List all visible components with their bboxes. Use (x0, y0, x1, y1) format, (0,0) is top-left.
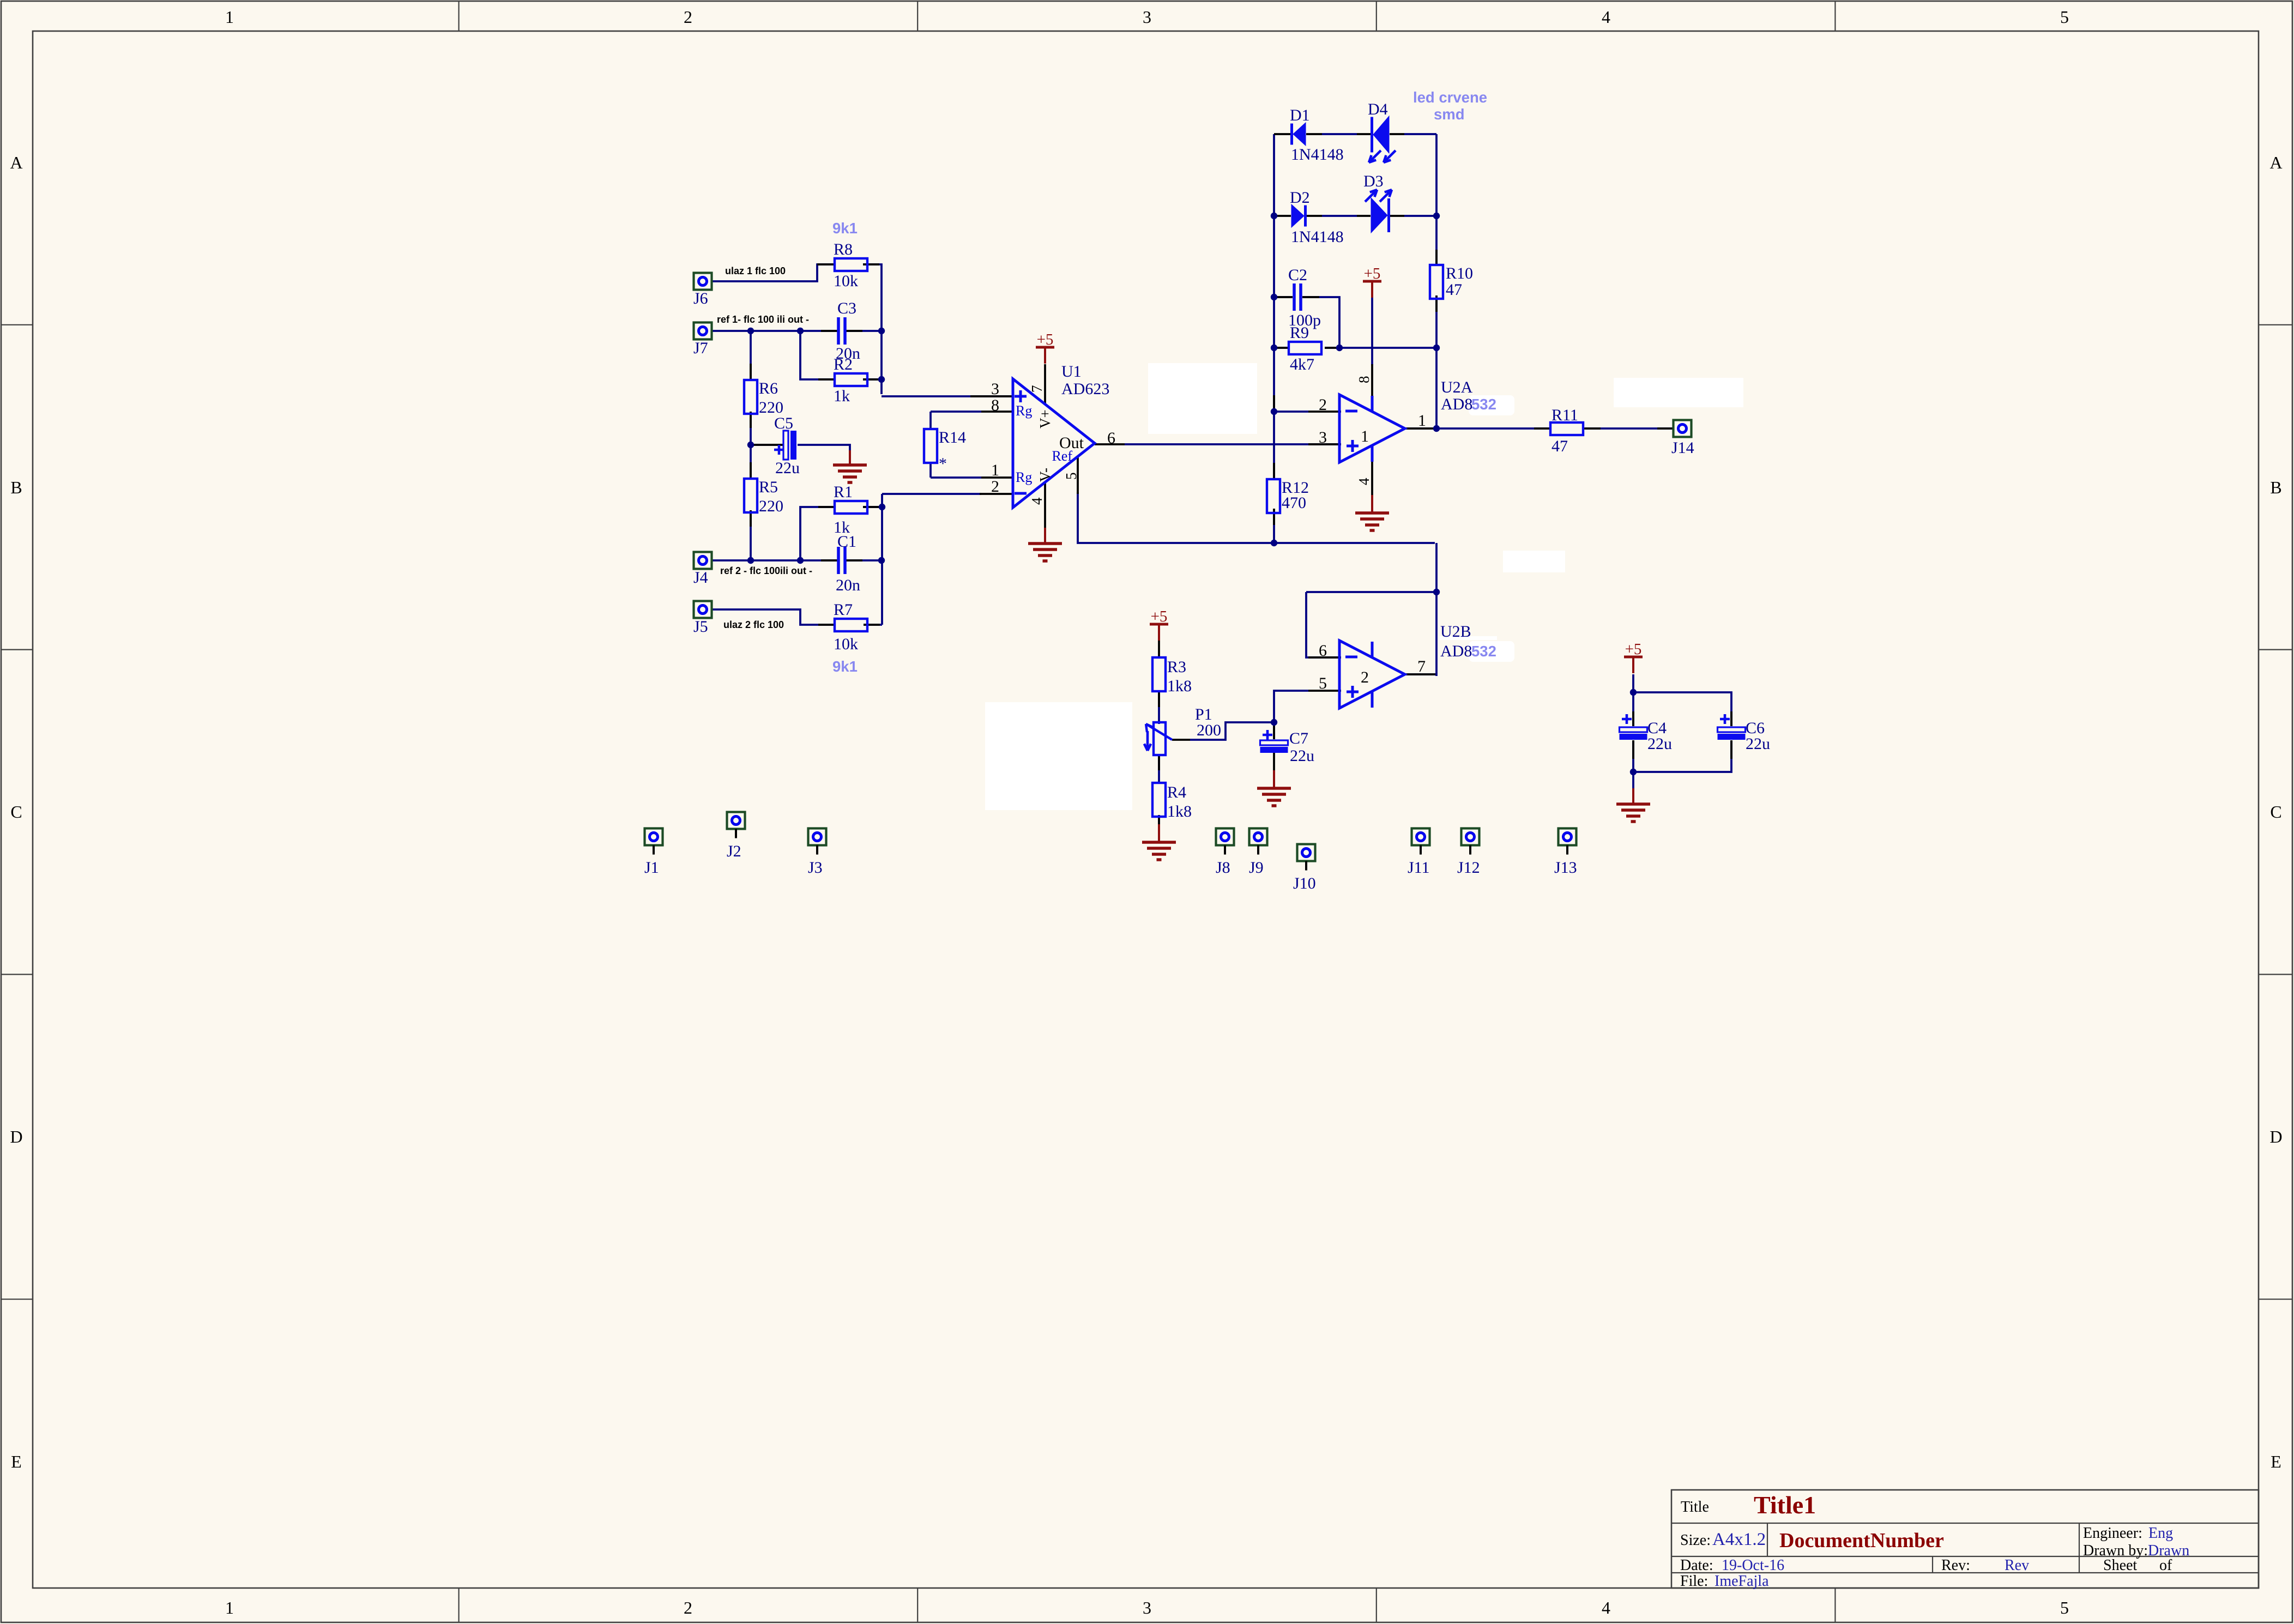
svg-text:22u: 22u (1746, 735, 1770, 753)
svg-text:D4: D4 (1368, 100, 1388, 118)
connector J12 (1457, 829, 1480, 877)
component pin leads (817, 263, 835, 265)
svg-text:8: 8 (991, 396, 999, 414)
junction C4 gnd rail (1630, 769, 1637, 775)
svg-text:AD8: AD8 (1441, 395, 1472, 413)
svg-text:D: D (10, 1127, 22, 1146)
svg-text:R4: R4 (1167, 783, 1186, 801)
wire U2A out to R11 (1406, 427, 1549, 430)
svg-text:File:: File: (1680, 1573, 1708, 1590)
svg-text:R10: R10 (1446, 264, 1473, 282)
svg-text:7: 7 (1029, 385, 1045, 393)
svg-text:J11: J11 (1408, 859, 1430, 877)
svg-text:C5: C5 (774, 414, 793, 432)
wire to U2A out (1435, 348, 1438, 428)
svg-text:10k: 10k (834, 635, 858, 653)
svg-text:J13: J13 (1554, 859, 1577, 877)
svg-text:U1: U1 (1061, 363, 1082, 381)
ground at C7 (1257, 770, 1291, 806)
wire R4 to ground (1158, 815, 1160, 825)
svg-text:5: 5 (1319, 674, 1327, 692)
wire to C5 (751, 444, 783, 446)
svg-text:9k1: 9k1 (832, 220, 858, 237)
+5 power at U2A/C2 (1363, 265, 1381, 298)
ground at U1 pin4 (1028, 528, 1062, 561)
svg-text:Rg: Rg (1016, 403, 1032, 419)
wire J4 net (711, 559, 837, 562)
svg-text:10k: 10k (834, 272, 858, 290)
wire R10 bottom (1435, 295, 1438, 348)
svg-text:2: 2 (684, 7, 692, 27)
svg-text:1: 1 (991, 461, 999, 479)
ground at C4/C6 (1616, 788, 1650, 822)
junction feedback (1433, 589, 1440, 595)
capacitor C1 20n (836, 533, 860, 594)
svg-text:ref 2 - flc 100ili out -: ref 2 - flc 100ili out - (720, 565, 812, 576)
white patch behind 532 of U2A (1469, 395, 1514, 415)
svg-text:+5: +5 (1151, 608, 1168, 625)
svg-text:C: C (10, 802, 22, 822)
wire R11 to J14 (1585, 427, 1673, 430)
svg-text:6: 6 (1107, 429, 1115, 447)
svg-text:AD8: AD8 (1440, 642, 1472, 660)
wire J6 to R8 (711, 264, 835, 281)
svg-text:U2A: U2A (1441, 378, 1473, 396)
svg-text:7: 7 (1417, 657, 1426, 675)
svg-text:532: 532 (1471, 396, 1496, 413)
capacitor C3 20n (836, 299, 860, 363)
svg-text:4: 4 (1602, 7, 1610, 27)
svg-text:3: 3 (1143, 7, 1151, 27)
svg-text:J7: J7 (693, 339, 708, 357)
svg-text:C3: C3 (837, 299, 856, 317)
resistor R14 (924, 428, 966, 473)
U1 pin numbers (991, 380, 1115, 505)
svg-text:9k1: 9k1 (832, 658, 858, 675)
svg-text:1: 1 (225, 1598, 234, 1617)
wire +5 to U2A pin8 (1371, 298, 1373, 365)
wire R12 bottom (1273, 509, 1275, 543)
junction R9 left (1271, 345, 1277, 351)
svg-text:1: 1 (1418, 412, 1426, 430)
svg-text:Ref: Ref (1052, 448, 1072, 464)
capacitor C5 22u polarized (774, 414, 800, 477)
resistor R12 470 (1267, 479, 1309, 513)
junction R9/R10 (1433, 345, 1440, 351)
connector J8 (1216, 829, 1234, 877)
svg-text:+5: +5 (1625, 641, 1642, 658)
svg-text:22u: 22u (1290, 747, 1314, 765)
svg-text:3: 3 (1319, 428, 1327, 446)
wire C1 right (846, 559, 882, 562)
svg-text:R7: R7 (834, 601, 853, 619)
connector J5 (693, 601, 712, 636)
junction R12/ref (1271, 540, 1277, 546)
capacitor C4 22u polarized (1620, 714, 1673, 753)
wire branch to R2 (800, 331, 835, 379)
wire D3 right (1404, 215, 1436, 217)
op-amp U1 AD623 (1013, 363, 1109, 508)
svg-text:1k8: 1k8 (1167, 802, 1192, 820)
wire right diode vertical (1435, 134, 1438, 266)
connector J6 (693, 273, 712, 308)
svg-text:3: 3 (991, 380, 999, 398)
connector J7 (693, 323, 712, 358)
U2A pin numbers (1319, 376, 1426, 486)
svg-text:1k: 1k (834, 387, 850, 405)
svg-text:R3: R3 (1167, 658, 1186, 676)
wire D4 right (1404, 133, 1436, 135)
svg-text:J5: J5 (693, 618, 708, 636)
wire P1 to R4 (1158, 754, 1160, 784)
svg-text:Title: Title (1681, 1499, 1709, 1516)
wire R5 to J4 net (750, 510, 752, 560)
wire C4 bottom lead (1632, 740, 1634, 772)
wire to ground (1632, 772, 1634, 789)
resistor R6 220 (744, 379, 783, 416)
junction C2 left (1271, 294, 1277, 300)
svg-text:5: 5 (1063, 473, 1079, 480)
wire ref vertical to U2B (1435, 543, 1438, 676)
svg-text:R1: R1 (834, 483, 853, 501)
+5 power at R3 (1150, 608, 1168, 641)
wire to U1 pin8 (931, 410, 981, 413)
capacitor C2 100p (1288, 266, 1321, 329)
svg-text:22u: 22u (775, 459, 800, 477)
junction J7/R2 (797, 328, 804, 334)
wire feedback to U2B pin6 (1306, 592, 1341, 657)
svg-text:8: 8 (1356, 376, 1372, 384)
junction R5/J4 (747, 557, 754, 564)
junction C1 right (878, 557, 885, 564)
svg-text:200: 200 (1197, 721, 1221, 739)
svg-text:1N4148: 1N4148 (1291, 228, 1344, 246)
wire branch to R1 (800, 507, 835, 560)
wire to U2B pin5 (1274, 691, 1308, 722)
svg-text:532: 532 (1471, 643, 1496, 660)
svg-text:J12: J12 (1457, 859, 1480, 877)
wire U1 out to U2A pin3 (1125, 443, 1341, 445)
svg-text:ulaz 1 flc 100: ulaz 1 flc 100 (725, 265, 786, 276)
junction J4/R1 (797, 557, 804, 564)
svg-text:B: B (10, 478, 22, 497)
connector J13 (1554, 829, 1577, 877)
wire R7 right (864, 624, 882, 626)
junction C3/R8 (878, 328, 885, 334)
ground at U2A pin4 (1355, 495, 1389, 530)
junction R2/R8 (878, 376, 885, 383)
svg-text:6: 6 (1319, 642, 1327, 660)
svg-text:J6: J6 (693, 289, 708, 307)
wire R2 right (863, 378, 882, 381)
svg-text:22u: 22u (1647, 735, 1672, 753)
wire R14 bottom lead (929, 463, 932, 478)
svg-text:1N4148: 1N4148 (1291, 146, 1344, 164)
svg-text:R14: R14 (939, 428, 966, 446)
wire D1 D4 link (1322, 133, 1357, 135)
diode D1 1N4148 (1290, 106, 1344, 164)
wire C4 top lead (1632, 692, 1634, 726)
ground at R4 (1142, 824, 1176, 860)
diode D2 1N4148 (1290, 189, 1344, 246)
svg-text:A4x1.2: A4x1.2 (1712, 1530, 1766, 1549)
LED D4 (1368, 100, 1396, 162)
wire R9 left lead (1274, 347, 1289, 349)
resistor R9 4k7 (1289, 324, 1321, 373)
resistor R10 47 (1430, 264, 1473, 299)
svg-text:Engineer:: Engineer: (2083, 1525, 2142, 1542)
wire left diode vertical (1273, 134, 1275, 479)
ground at C5 (833, 450, 867, 482)
svg-text:E: E (2271, 1452, 2281, 1471)
svg-text:J3: J3 (808, 859, 823, 877)
connector J3 (808, 829, 826, 877)
svg-text:D1: D1 (1290, 106, 1310, 124)
svg-text:Rev:: Rev: (1941, 1557, 1970, 1574)
white patch right of R11 (1614, 378, 1743, 407)
svg-text:19-Oct-16: 19-Oct-16 (1722, 1557, 1784, 1574)
wire to U2A pin2 (1274, 410, 1308, 413)
wire to C7 (1273, 722, 1275, 739)
svg-text:D: D (2269, 1127, 2282, 1146)
svg-text:U2B: U2B (1440, 623, 1471, 641)
svg-text:DocumentNumber: DocumentNumber (1779, 1529, 1944, 1552)
resistor R1 1k (834, 483, 867, 536)
connector J9 (1249, 829, 1267, 877)
resistor R7 10k (834, 601, 867, 653)
wire C2 right to R9 net (1302, 297, 1339, 348)
svg-text:1: 1 (225, 7, 234, 27)
connector J14 (1671, 420, 1694, 457)
svg-text:C1: C1 (837, 533, 856, 551)
junction D3 right (1433, 213, 1440, 219)
svg-text:5: 5 (2060, 7, 2069, 27)
wire D2 D3 link (1322, 215, 1357, 217)
svg-text:47: 47 (1446, 281, 1462, 299)
svg-text:of: of (2159, 1557, 2172, 1574)
svg-text:D3: D3 (1363, 172, 1384, 190)
connector J2 (727, 812, 745, 861)
wire C4 C6 bottom rail (1633, 740, 1731, 772)
svg-text:3: 3 (1143, 1598, 1151, 1617)
svg-text:Eng: Eng (2148, 1525, 2173, 1542)
svg-text:20n: 20n (836, 345, 860, 363)
svg-text:47: 47 (1552, 437, 1568, 455)
svg-text:5: 5 (2060, 1598, 2069, 1617)
junction wiper/C7 (1271, 719, 1277, 726)
svg-text:J2: J2 (727, 842, 741, 860)
wire inverting vertical (881, 494, 883, 625)
svg-text:J10: J10 (1293, 874, 1316, 892)
resistor R11 47 (1550, 406, 1583, 455)
svg-text:2: 2 (684, 1598, 692, 1617)
svg-text:ImeFajla: ImeFajla (1715, 1573, 1769, 1590)
svg-text:Rg: Rg (1016, 469, 1032, 485)
junction R6/C5 (747, 442, 754, 448)
white patch over old text right of U1 (1148, 363, 1257, 434)
wire C3 right (846, 330, 882, 332)
svg-text:A: A (10, 153, 22, 172)
svg-text:4: 4 (1602, 1598, 1610, 1617)
svg-text:smd: smd (1434, 106, 1465, 123)
wire R3 to P1 (1158, 691, 1160, 724)
svg-text:A: A (2269, 153, 2282, 172)
svg-text:R5: R5 (759, 478, 778, 496)
svg-text:+5: +5 (1037, 331, 1054, 348)
resistor R4 1k8 (1152, 783, 1192, 820)
svg-text:V-: V- (1037, 468, 1053, 482)
resistor R8 10k (834, 240, 867, 290)
svg-text:*: * (939, 455, 947, 473)
wire C2 left lead (1274, 296, 1293, 298)
svg-text:C7: C7 (1289, 729, 1308, 747)
svg-text:Sheet: Sheet (2103, 1557, 2137, 1574)
svg-text:J14: J14 (1671, 439, 1694, 457)
wire J7 to R6 (750, 331, 752, 380)
svg-text:Title1: Title1 (1754, 1491, 1816, 1519)
svg-text:1k8: 1k8 (1167, 677, 1192, 695)
wire P1 wiper net (1190, 722, 1274, 740)
U2B pin numbers (1319, 642, 1426, 692)
svg-text:J1: J1 (644, 859, 659, 877)
svg-text:2: 2 (991, 478, 999, 496)
svg-text:R8: R8 (834, 240, 853, 258)
svg-text:100p: 100p (1288, 311, 1321, 329)
svg-text:4k7: 4k7 (1290, 355, 1314, 373)
LED D3 (1363, 172, 1392, 233)
svg-text:220: 220 (759, 497, 783, 515)
wire to U1 pin1 (931, 476, 981, 479)
junction J7/R6 (747, 328, 754, 334)
svg-text:led crvene: led crvene (1413, 89, 1487, 106)
svg-text:C: C (2270, 802, 2281, 822)
+5 power at U1 pin7 (1036, 331, 1054, 364)
junction C2/R9 right (1336, 345, 1343, 351)
junction pin2 branch (1271, 408, 1277, 415)
wire J5 to R7 (711, 609, 835, 625)
wire R14 top lead (929, 412, 932, 430)
wire U2B out (1406, 673, 1436, 675)
wire R1 right (863, 506, 882, 508)
wire to U1 pin3 (882, 395, 1013, 397)
svg-text:470: 470 (1282, 494, 1306, 512)
svg-text:Date:: Date: (1680, 1557, 1713, 1574)
junction R1 right (879, 504, 885, 510)
svg-text:Size:: Size: (1680, 1532, 1711, 1549)
svg-text:4: 4 (1356, 478, 1372, 485)
svg-text:2: 2 (1361, 668, 1369, 686)
wire feedback horizontal (1306, 591, 1436, 593)
white patch behind 532 of U2B (1469, 641, 1514, 662)
svg-text:J9: J9 (1249, 859, 1264, 877)
wire to U1 pin2 (882, 493, 981, 495)
connector J10 (1293, 844, 1316, 893)
connector J11 (1408, 829, 1430, 877)
junction C4 rail (1630, 689, 1637, 696)
wire +5 to C4 rail (1632, 674, 1634, 692)
title block (1671, 1490, 2259, 1590)
wire C5 to ground (798, 445, 850, 450)
svg-text:ref 1- flc 100 ili out -: ref 1- flc 100 ili out - (717, 314, 809, 325)
svg-text:+5: +5 (1364, 265, 1381, 282)
resistor R3 1k8 (1152, 657, 1192, 695)
wire R9 to R10 net (1325, 347, 1436, 349)
svg-text:20n: 20n (836, 576, 860, 594)
wire R8 to pin3 vertical (863, 264, 882, 394)
svg-text:2: 2 (1319, 396, 1327, 414)
connector J1 (644, 829, 663, 877)
connector J4 (693, 552, 712, 587)
svg-text:V+: V+ (1037, 409, 1053, 428)
svg-text:C2: C2 (1288, 266, 1307, 284)
svg-text:1: 1 (1361, 427, 1369, 445)
capacitor C6 22u polarized (1718, 714, 1771, 753)
wire J7 net (711, 330, 837, 332)
resistor R5 220 (744, 478, 783, 515)
capacitor C7 22u polarized (1260, 729, 1315, 765)
resistor R2 1k (834, 355, 867, 405)
svg-text:R11: R11 (1552, 406, 1578, 424)
svg-text:B: B (2270, 478, 2281, 497)
wire R6 to R5 (750, 412, 752, 479)
svg-text:Rev: Rev (2005, 1557, 2029, 1574)
svg-text:J8: J8 (1216, 859, 1230, 877)
op-amp U2B AD8532 (1339, 623, 1496, 708)
potentiometer P1 200 (1144, 705, 1221, 755)
svg-text:ulaz 2 flc 100: ulaz 2 flc 100 (723, 619, 784, 630)
op-amp U2A AD8532 (1339, 378, 1496, 462)
svg-text:R6: R6 (759, 379, 778, 397)
wire C4 C6 top rail (1633, 692, 1731, 726)
junction D2 left (1271, 213, 1277, 219)
svg-text:AD623: AD623 (1061, 380, 1109, 398)
svg-text:D2: D2 (1290, 189, 1310, 207)
svg-text:4: 4 (1029, 497, 1045, 505)
white patch below U2A (1503, 551, 1565, 572)
white patch left of P1 (985, 702, 1132, 810)
svg-text:E: E (11, 1452, 22, 1471)
wire U1 ref net (1078, 492, 1435, 543)
+5 power at C4 (1624, 641, 1643, 673)
junction U2A out (1433, 425, 1440, 432)
svg-text:J4: J4 (693, 569, 708, 587)
